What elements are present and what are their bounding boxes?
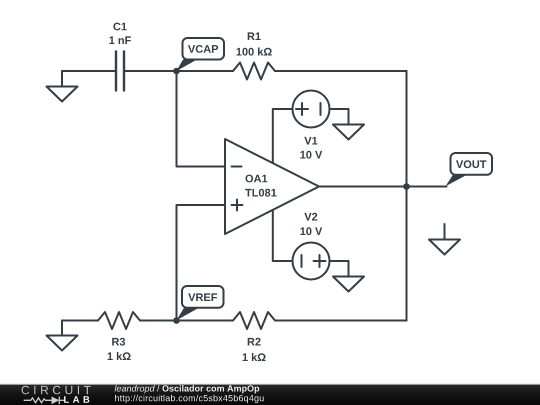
wire: R1 to top right corner <box>275 70 407 72</box>
resistor R3 <box>98 312 140 329</box>
label R3 designator <box>112 338 125 346</box>
label R1 value 100 kOhm <box>237 48 272 56</box>
resistor R1 <box>233 63 275 80</box>
label C1 designator <box>113 23 126 31</box>
label OA1 designator <box>246 175 268 183</box>
footer logo wordmark CIRCUIT <box>22 386 91 395</box>
wire: op-amp output to VOUT stub <box>319 186 447 188</box>
footer attribution line <box>115 385 260 393</box>
node tag VOUT text <box>456 160 486 168</box>
label OA1 part TL081 <box>245 189 276 197</box>
wire: ground to C1 left plate <box>62 70 115 72</box>
voltage source V2 <box>273 210 349 280</box>
resistor R2 <box>233 312 275 329</box>
op-amp OA1 plus pin mark <box>232 200 243 211</box>
node tag VREF text <box>188 293 217 301</box>
ground (V2) <box>333 277 364 292</box>
node VCAP junction dot <box>173 68 180 75</box>
wire: node VCAP to R1 <box>177 70 234 72</box>
node tag VCAP <box>177 38 225 71</box>
op-amp OA1 minus pin mark <box>232 166 242 168</box>
label V2 value 10 V <box>300 227 322 235</box>
label R1 designator <box>248 32 261 40</box>
footer logo wordmark LAB <box>64 396 89 403</box>
op-amp OA1 body <box>225 139 319 234</box>
node tag VCAP text <box>188 45 218 53</box>
footer logo resistor-diode glyph <box>24 397 65 404</box>
ground (top left) <box>47 71 78 102</box>
wire: non-inverting input to node VREF <box>177 205 226 321</box>
wire: node VCAP to inverting input <box>177 71 226 167</box>
ground (floating, below VOUT) <box>429 224 460 255</box>
node VOUT junction dot <box>403 183 410 190</box>
label R2 value 1 kOhm <box>243 353 266 361</box>
label V1 value 10 V <box>300 151 322 159</box>
label R3 value 1 kOhm <box>108 352 131 360</box>
wire: R3 to ground <box>62 320 98 322</box>
wire: right rail to R2 <box>275 320 407 322</box>
voltage source V1 <box>273 91 349 164</box>
node VREF junction dot <box>173 317 180 324</box>
label R2 designator <box>248 338 261 346</box>
footer url line <box>115 395 264 403</box>
node tag VREF <box>177 286 224 320</box>
wire: C1 to node VCAP <box>125 70 177 72</box>
node tag VOUT <box>446 153 493 186</box>
ground (V1) <box>333 125 364 140</box>
ground (bottom left) <box>47 321 78 351</box>
label V1 designator <box>304 137 317 145</box>
wire: right vertical rail <box>406 71 408 321</box>
label V2 designator <box>304 213 317 221</box>
capacitor C1 <box>116 52 124 91</box>
wire: R2 to node VREF to R3 <box>140 320 233 322</box>
label C1 value 1 nF <box>109 36 130 44</box>
